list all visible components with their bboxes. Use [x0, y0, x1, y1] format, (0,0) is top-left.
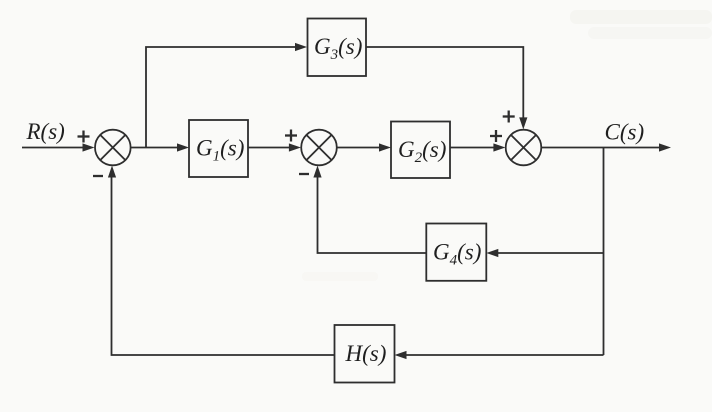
arrowhead into S1 from below [108, 166, 116, 178]
wire output takeoff down [603, 148, 605, 356]
wire H to S1 [112, 177, 335, 356]
minus sign at S1 feedback [93, 175, 103, 177]
wire S1 to G1 [131, 147, 178, 149]
arrowhead into S3 from top [519, 117, 527, 129]
wire takeoff node to top branch [146, 47, 296, 148]
block G1 [189, 120, 248, 177]
block H [335, 325, 395, 383]
arrowhead into S2 from below [313, 166, 321, 178]
wire input R(s) [22, 147, 84, 149]
arrowhead into S3 from left [493, 143, 505, 151]
plus sign at S1 input [78, 131, 90, 143]
wire takeoff to H input [406, 354, 604, 356]
arrowhead output C(s) [659, 143, 671, 151]
svg-text:G4(s): G4(s) [433, 240, 481, 269]
plus sign at S2 input [285, 130, 297, 142]
plus sign at S3 top input [503, 111, 515, 123]
block G3 [308, 19, 367, 77]
arrowhead into S1 [83, 143, 95, 151]
wire G1 to S2 [248, 147, 290, 149]
svg-text:G2(s): G2(s) [398, 137, 446, 166]
block G4 [426, 224, 486, 281]
svg-text:R(s): R(s) [26, 119, 65, 144]
arrowhead into G1 [177, 143, 189, 151]
arrowhead into H [395, 351, 407, 359]
wire G3 to S3 [366, 47, 523, 119]
arrowhead into S2 [289, 143, 301, 151]
arrowhead into G3 [295, 43, 307, 51]
wire G4 to S2 [318, 177, 427, 254]
arrowhead into G2 [379, 143, 391, 151]
svg-text:G1(s): G1(s) [196, 136, 244, 165]
summing junction S2 [301, 130, 337, 166]
wire S2 to G2 [337, 147, 380, 149]
wire S3 to output C(s) [541, 147, 660, 149]
svg-text:C(s): C(s) [605, 120, 645, 145]
svg-text:G3(s): G3(s) [314, 34, 362, 63]
minus sign at S2 feedback [299, 173, 309, 175]
block G2 [391, 122, 450, 179]
wire G2 to S3 [450, 147, 495, 149]
arrowhead into G4 [486, 249, 498, 257]
plus sign at S3 left input [490, 130, 502, 142]
svg-text:H(s): H(s) [345, 341, 387, 366]
summing junction S1 [95, 130, 131, 166]
summing junction S3 [506, 130, 542, 166]
wire takeoff to G4 input [498, 252, 604, 254]
